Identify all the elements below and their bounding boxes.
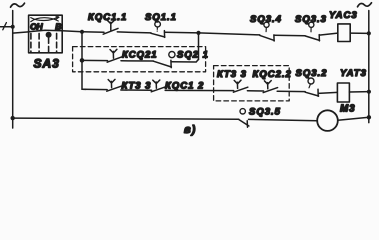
svg-text:SA3: SA3 bbox=[34, 57, 60, 71]
wire KQC1.2 into dashed box KT/KQC2 bbox=[165, 89, 234, 91]
SA3 cam handle symbol bbox=[31, 18, 59, 22]
svg-text:SQ3.3: SQ3.3 bbox=[295, 14, 327, 25]
supply stub wire from left edge bbox=[0, 26, 13, 28]
svg-text:М3: М3 bbox=[340, 103, 356, 114]
wire SQ3.4 to SQ3.3 bbox=[274, 34, 305, 36]
wire junction A to contact KQC1.1 bbox=[82, 31, 104, 34]
svg-text:КQC2.2: КQC2.2 bbox=[253, 69, 292, 80]
dashed box KCQ2 (door/interlock group) bbox=[73, 47, 206, 72]
left bus (vertical wire) bbox=[12, 11, 14, 129]
bottom bus left segment bbox=[13, 118, 239, 119]
wire row3: feeder corner to contact KT3.3a bbox=[82, 88, 107, 90]
SA3 position dot (position В engaged) bbox=[46, 32, 52, 38]
junction dot bottom-right corner bbox=[367, 115, 371, 119]
wire: left bus to SA3 box bbox=[13, 32, 29, 33]
svg-text:SQ1.1: SQ1.1 bbox=[145, 12, 177, 23]
contact KT3.3 (in box, NO) bbox=[233, 87, 247, 92]
wire KQC1.1 to SQ1.1 bbox=[117, 32, 151, 33]
bottom bus middle segment bbox=[249, 119, 318, 120]
junction dot node B bbox=[196, 31, 200, 35]
feeder wire from node A down to row 3 bbox=[82, 32, 86, 90]
break slash on supply stub bbox=[3, 23, 7, 30]
svg-text:YAC3: YAC3 bbox=[329, 10, 358, 21]
svg-text:YAT3: YAT3 bbox=[340, 68, 367, 79]
wire SQ1.1 to junction B bbox=[165, 31, 199, 34]
bottom bus right segment bbox=[338, 117, 369, 120]
contact SQ1.1 (travel switch, NO) bbox=[151, 33, 165, 37]
wire SQ2.1 to vertical drop from node B bbox=[171, 59, 198, 62]
wire node B down to row2 bbox=[198, 33, 200, 60]
dashed box KT3/KQC2.2 group bbox=[214, 66, 290, 101]
contact SQ3.5 (travel switch, NO on bottom bus) bbox=[239, 119, 249, 126]
contact SQ3.2 (travel switch, NO) bbox=[305, 92, 318, 96]
coil YAT3 bbox=[337, 83, 349, 102]
contact SQ2.1 (NO, travel switch with circle) bbox=[153, 61, 171, 67]
wire SQ3.2 to coil YAT3 bbox=[318, 92, 337, 93]
wire coil YAC3 to right bus bbox=[350, 32, 369, 34]
svg-text:SQ3.5: SQ3.5 bbox=[249, 106, 281, 117]
right bus (vertical wire) bbox=[368, 11, 370, 123]
wire KCQ2.1 to SQ2.1 bbox=[121, 60, 153, 62]
contact SQ3.4 (travel switch, NO) bbox=[260, 35, 274, 40]
wire junction B to SQ3.4 bbox=[199, 33, 260, 35]
wire SQ3.3 to coil YAC3 bbox=[319, 33, 337, 35]
contact KCQ2.1 (NO) bbox=[107, 57, 121, 62]
coil YAC3 bbox=[338, 24, 350, 42]
contact KQC2.2 (NO) bbox=[263, 88, 277, 93]
wire KT3.3 to KQC1.2 bbox=[121, 89, 152, 91]
contact SQ3.3 (travel switch, NO) bbox=[305, 36, 320, 41]
junction dot YAC3 / right bus bbox=[367, 31, 371, 35]
junction dot left bus / stub bbox=[11, 25, 15, 29]
wire KQC2.2 out of box to SQ3.2 bbox=[277, 90, 305, 92]
SA3 linkage dashed lines bbox=[30, 33, 32, 52]
junction dot bottom-left corner bbox=[11, 116, 15, 120]
svg-text:SQ3.4: SQ3.4 bbox=[250, 14, 282, 25]
AC supply symbol left (~) bbox=[11, 3, 25, 7]
svg-text:В: В bbox=[55, 21, 62, 31]
AC supply symbol right (~) bbox=[358, 3, 372, 7]
junction dot node A (top rung / feeder column) bbox=[80, 30, 84, 34]
contact KT3.3 (left, NO) bbox=[107, 86, 121, 91]
switch SA3 box bbox=[29, 15, 63, 53]
svg-text:SQ2 1: SQ2 1 bbox=[177, 49, 209, 60]
contact KQC1.1 (NO, contactor) bbox=[103, 28, 118, 34]
wire row2: feeder to contact KCQ2.1 bbox=[82, 59, 108, 61]
wire through SA3 box bbox=[29, 30, 83, 32]
contact KQC1.2 (NO) bbox=[151, 87, 165, 92]
junction dot YAT3 / right bus bbox=[367, 90, 371, 94]
svg-text:SQ3.2: SQ3.2 bbox=[296, 68, 328, 79]
wire KT3.3b to KQC2.2 bbox=[247, 90, 263, 92]
motor M3 circle bbox=[317, 110, 338, 131]
svg-text:в): в) bbox=[184, 124, 196, 136]
svg-text:КТ3 3: КТ3 3 bbox=[217, 69, 247, 80]
wire coil YAT3 to right bus bbox=[349, 91, 369, 93]
svg-text:КQC1.1: КQC1.1 bbox=[88, 12, 127, 23]
svg-text:КСQ21: КСQ21 bbox=[122, 49, 158, 60]
